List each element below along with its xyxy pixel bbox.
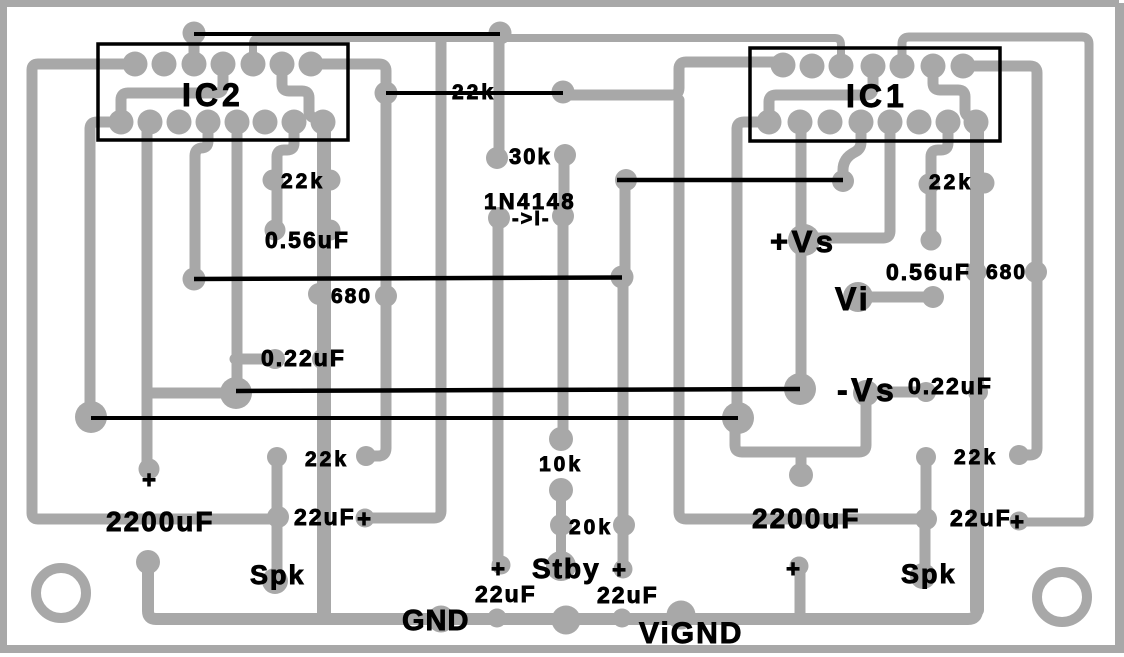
node 22k IC2 right pad <box>320 170 341 191</box>
node 680 jumper pad left <box>183 268 206 291</box>
wire Vi pad to right pad <box>858 292 928 303</box>
node +Vs terminal pad <box>788 224 820 256</box>
wire jumper -Vs upper link <box>236 389 800 391</box>
svg-text:22k: 22k <box>305 448 349 471</box>
wire top rail IC2 pad5 to IC1 pad3 <box>253 38 841 66</box>
node 0.56uF right pads <box>921 230 942 251</box>
wire jumper 680 row link <box>194 278 622 280</box>
node 22uF stby-left pads <box>492 556 511 575</box>
wire 10k to 20k chain <box>556 492 566 560</box>
wire IC2 pad7 to 22k jumper left pad <box>311 64 386 93</box>
wire 30k right to 1N4148 right <box>559 157 570 212</box>
node Vi terminal pad <box>843 282 873 312</box>
svg-text:->I-: ->I- <box>512 208 551 230</box>
svg-text:22k: 22k <box>929 171 973 194</box>
svg-text:0.22uF: 0.22uF <box>908 373 993 399</box>
wire 22uF left pad down to Spk <box>272 518 283 577</box>
node 680 left pads <box>308 283 330 305</box>
node 22k stby-right pads <box>916 447 936 467</box>
node IC1 pin pads bottom row <box>757 110 782 135</box>
node Spk left pad <box>262 568 288 594</box>
svg-text:680: 680 <box>986 261 1027 284</box>
node 0.56uF left pads <box>265 220 286 241</box>
svg-text:0.56uF: 0.56uF <box>265 227 350 253</box>
node Stby jumper pad left <box>615 169 637 191</box>
node -Vs terminal pad <box>853 380 879 406</box>
svg-text:+: + <box>357 506 371 533</box>
wire IC2 pad6 S-bend to pad8 <box>282 64 322 120</box>
node Stby terminal pad <box>546 551 576 581</box>
node mounting hole bottom-left <box>36 568 86 618</box>
wire right 2200uF row pad down to Spk <box>920 520 931 570</box>
node 22uF right pads <box>915 508 937 530</box>
node 20k column pad <box>613 514 635 536</box>
node 680 right pad <box>1025 261 1047 283</box>
svg-text:+: + <box>612 557 626 584</box>
node ViGND terminal pad <box>667 601 696 630</box>
node 22k IC1 pads <box>919 174 940 195</box>
node -Vs jumper big pad at +Vs column <box>784 373 816 405</box>
svg-text:22uF: 22uF <box>950 505 1012 531</box>
wire board outline bottom bar <box>0 645 1124 653</box>
wire board outline top bar <box>0 0 1119 7</box>
node 2200uF left pads <box>139 459 160 480</box>
svg-text:30k: 30k <box>509 144 552 169</box>
svg-text:IC2: IC2 <box>182 77 244 113</box>
wire +Vs column IC1 pad2-bottom down to -Vs jumper pad <box>796 124 807 378</box>
svg-text:2200uF: 2200uF <box>106 506 215 537</box>
svg-text:20k: 20k <box>569 516 613 539</box>
node Stby jumper pad right <box>832 170 854 192</box>
svg-text:10k: 10k <box>539 453 583 476</box>
wire x679 vertical down to right 2200uF row <box>679 100 920 519</box>
wire IC2 pad3 stub to top jumper pad <box>189 33 200 62</box>
svg-text:+: + <box>491 556 505 583</box>
svg-text:2200uF: 2200uF <box>752 503 861 534</box>
wire right 2200uF stub pad <box>796 452 807 470</box>
node -Vs jumper big pad right <box>722 402 754 434</box>
wire IC1 pad4-bottom jog down to Stby jumper pad <box>843 124 861 176</box>
svg-text:Vi: Vi <box>835 281 871 317</box>
svg-text:+: + <box>1010 509 1024 536</box>
node IC1 pin pads top row <box>771 53 796 78</box>
svg-text:Stby: Stby <box>532 553 601 584</box>
wire 22k jumper right pad to IC1 pad1 <box>563 62 777 95</box>
svg-text:ViGND: ViGND <box>639 617 743 650</box>
wire -Vs pad loop to big jumper pad <box>735 396 866 452</box>
node -Vs big pad mid-left <box>220 377 252 409</box>
wire right wide vertical IC1 pad8 down <box>970 122 984 610</box>
wire board outline right bar <box>1115 3 1124 652</box>
wire IC1 pad5-top loop right side down to 22uF plus <box>902 37 1089 522</box>
svg-text:0.22uF: 0.22uF <box>261 345 346 371</box>
wire IC2 interior U pad1-pad3 <box>121 66 223 118</box>
wire IC1 pad6-top S-bend to pad8 <box>933 66 976 120</box>
wire 1N4148 right down to 10k <box>558 218 569 432</box>
wire branch to -Vs big pad left <box>148 388 224 399</box>
wire 30k left feed from top jumper pad <box>494 35 505 152</box>
node 0.22uF left pads <box>265 349 285 369</box>
node 10k pads <box>549 427 573 451</box>
svg-text:22k: 22k <box>954 446 998 469</box>
wire IC1 pad1-bottom left jog down to big jumper pad <box>737 122 763 404</box>
svg-text:IC1: IC1 <box>846 78 908 114</box>
svg-text:22uF: 22uF <box>475 581 537 607</box>
node IC2 pin pads bottom row <box>109 110 134 135</box>
wire jumper Stby link <box>617 178 843 183</box>
node top jumper pad left <box>183 22 206 45</box>
svg-text:22k: 22k <box>452 81 496 104</box>
node top jumper pad right <box>489 22 512 45</box>
node IC2 pin pads top row <box>123 52 148 77</box>
node GND terminal pad <box>428 606 455 633</box>
wire branch to 0.22uF left pad <box>235 354 268 365</box>
svg-text:22uF: 22uF <box>294 504 356 530</box>
svg-text:22uF: 22uF <box>597 582 659 608</box>
svg-text:0.56uF: 0.56uF <box>886 259 971 285</box>
svg-text:-Vs: -Vs <box>837 372 897 408</box>
wire IC2 pin1 feed from left rail down to 2200uF row <box>32 64 272 519</box>
node Vi series pad <box>922 286 944 308</box>
wire left wide vertical IC2 pad8 to bottom rail <box>317 122 331 613</box>
wire IC2 pad4-bottom jog down to 680 jumper pad <box>195 124 208 272</box>
wire 22k stby left pad down to 22uF <box>272 459 283 512</box>
node Stby ground rail pad <box>552 606 581 635</box>
wire long middle vertical to 22uF plus <box>365 38 441 518</box>
svg-text:+: + <box>786 556 800 583</box>
node 680 jumper pad right at Stby column <box>611 266 634 289</box>
wire jumper top link IC2 to 30k column <box>194 32 500 36</box>
wire IC1 pad7-bottom jog down to 22k/0.56uF column <box>931 124 948 238</box>
wire 22k right pad down to 2200uF row <box>921 459 932 513</box>
wire board outline left bar <box>0 0 7 652</box>
node 22uF stby-right pads <box>614 560 633 579</box>
node 22uF left pads <box>267 506 289 528</box>
wire jumper -Vs lower link <box>91 416 738 420</box>
svg-text:22k: 22k <box>281 170 325 193</box>
wire IC2 pad1-bottom left jog down to -Vs big pad <box>90 122 115 408</box>
wire 2200uF left bottom pad into ground rail (start) <box>143 564 154 600</box>
wire IC2 pad2-bottom down to 2200uF plus <box>142 124 153 461</box>
wire 1N4148 left pad down to Stby 22uF plus <box>493 222 504 559</box>
wire right 2200uF plus pad to ground rail <box>795 568 806 613</box>
node 22k jumper pad right <box>552 81 575 104</box>
svg-text:+Vs: +Vs <box>770 224 837 259</box>
wire IC2 pad5-bottom down to -Vs big pad <box>232 124 243 382</box>
wire 22k jumper left pad down to 680 and 22k <box>368 93 386 456</box>
wire IC1 interior pad4-top to pad1-bottom <box>769 66 873 118</box>
node 0.22uF right pads <box>916 382 936 402</box>
op-amp U-IC1 outline <box>750 48 1000 141</box>
node 20k pads <box>550 514 572 536</box>
node mounting hole bottom-right <box>1037 572 1087 622</box>
node 22k jumper pad left <box>375 82 398 105</box>
wire IC1 pad7-top right loop down to 22k <box>963 66 1037 455</box>
wire +Vs pad right loop up to IC1 pad5-bottom <box>812 124 890 238</box>
wire Stby jumper left pad down through 20k to 22uF plus <box>623 182 625 565</box>
resistor R-22k jumper link <box>386 91 563 95</box>
op-amp U-IC2 outline <box>98 44 348 140</box>
node 22k IC2 left pad <box>263 170 284 191</box>
svg-text:+: + <box>142 467 156 494</box>
svg-text:Spk: Spk <box>250 560 306 590</box>
node 30k pads <box>486 147 508 169</box>
svg-text:Spk: Spk <box>901 559 957 589</box>
node -Vs jumper big pad left <box>75 401 107 433</box>
node 2200uF right pads <box>789 463 813 487</box>
svg-text:GND: GND <box>402 605 469 637</box>
svg-text:680: 680 <box>331 285 372 308</box>
node 22k stby-left pads <box>267 447 287 467</box>
wire -Vs pad to 0.22uF right <box>869 387 920 398</box>
node Spk right pad <box>910 563 936 589</box>
wire IC2 pad7-bottom jog to 22k/0.56uF column <box>277 124 294 230</box>
node 1N4148 diode pads <box>488 207 510 229</box>
wire bottom ground rail <box>148 126 977 619</box>
